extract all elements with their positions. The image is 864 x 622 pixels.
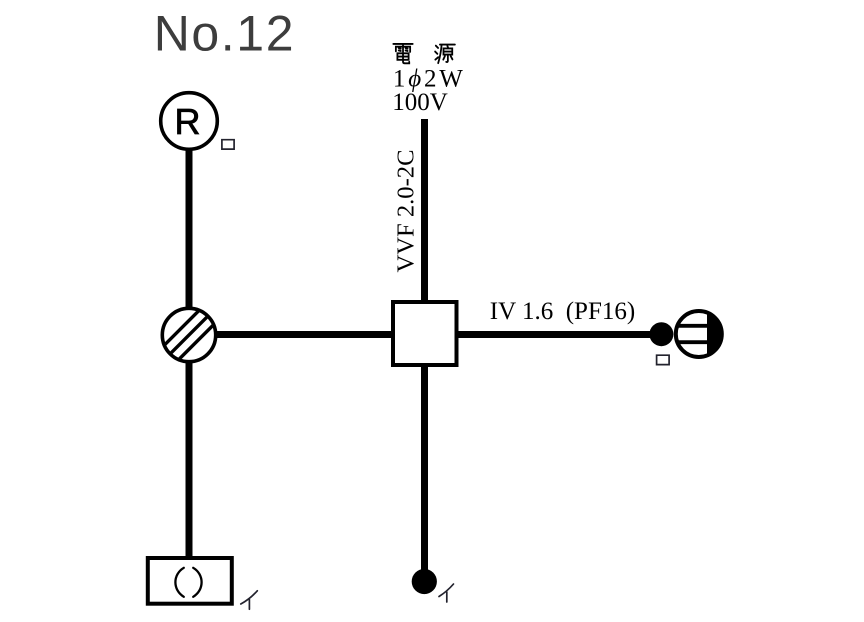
label イ (ceiling rose) [241, 591, 257, 610]
kanji 電 [393, 44, 412, 63]
wire: power source to outlet box (VVF 2.0-2C) [421, 119, 428, 305]
lamp receptacle R [161, 93, 218, 150]
wire: outlet box to switch ロ and receptacle [455, 331, 652, 338]
power source label 電源 (kanji drawn as paths) [393, 44, 455, 63]
switch イ [412, 569, 437, 594]
label ロ (switch) [657, 355, 670, 364]
ceiling rose イ (square type) [148, 558, 232, 604]
outlet box (junction box) [393, 302, 457, 365]
label イ (switch) [439, 584, 454, 602]
wire: lamp receptacle to joint box [186, 148, 193, 310]
svg-text:R: R [175, 101, 201, 142]
label ロ (receptacle circuit) [222, 140, 234, 149]
VVF joint box (hatched circle) [144, 276, 234, 395]
svg-text:100V: 100V [392, 89, 448, 116]
svg-text:VVF 2.0-2C: VVF 2.0-2C [392, 150, 419, 273]
svg-text:IV 1.6 (PF16): IV 1.6 (PF16) [490, 298, 635, 325]
wire: joint box to ceiling rose [186, 360, 193, 560]
wire: joint box to outlet box [214, 331, 395, 338]
switch ロ [649, 322, 673, 346]
wire: outlet box to switch イ [421, 365, 428, 572]
svg-text:No.12: No.12 [154, 6, 295, 62]
receptacle outlet (wall-mounted) [676, 311, 722, 357]
kanji 源 [435, 45, 455, 64]
